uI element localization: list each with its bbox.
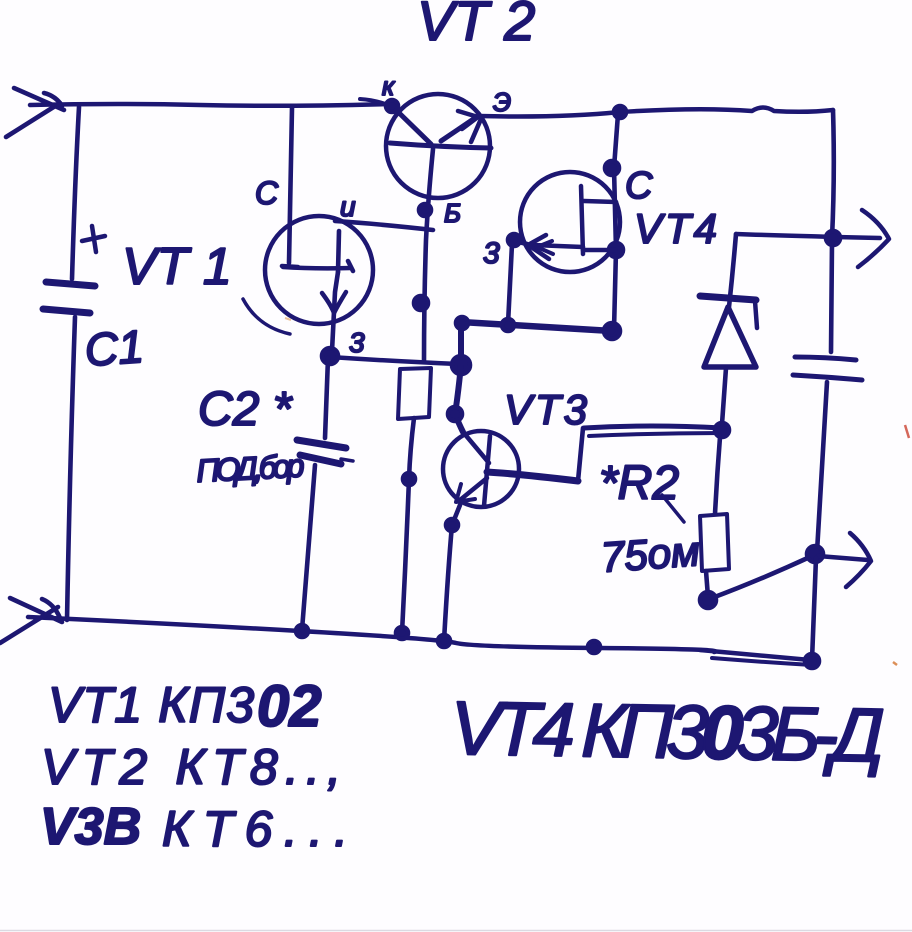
wire VT2 base down [424,149,433,362]
wire R2 to output diagonal [712,556,812,598]
wire middle horizontal y325 [461,322,612,331]
diode VD zener [700,234,757,424]
node output1 junction [826,231,840,245]
svg-text:3: 3 [483,237,500,270]
wire right rail down to bottom [812,558,816,660]
wire top rail left [30,104,390,106]
node VT4 gate [508,234,520,246]
node top rail junction [614,106,626,118]
svg-text:3: 3 [349,327,365,358]
svg-text:C1: C1 [83,320,145,376]
capacitor C2 [297,440,353,464]
svg-text:C: C [625,165,653,207]
arrow output 2 [818,556,868,560]
wire C1 top lead [72,107,79,279]
node bottom rail junctions [296,625,308,637]
input arrow bottom-left [0,598,62,643]
svg-text:VT 2: VT 2 [417,0,535,52]
wire right rail corner down [832,110,834,238]
svg-text:ПОД,бор: ПОД,бор [195,447,305,489]
wire VT1 to VT2 base [335,221,433,230]
node big junction [452,356,470,374]
wire bottom rail [28,617,715,652]
svg-text:VT 1: VT 1 [122,238,232,296]
node R2 bottom [700,592,716,608]
svg-text:Э: Э [493,87,511,117]
node VT1 source [322,348,338,364]
svg-text:VT4 КП303Б-Д: VT4 КП303Б-Д [450,686,885,779]
transistor VT1 [243,216,373,351]
node R2 top junction [715,423,729,437]
transistor VT2 [360,94,491,198]
wire R2 top lead [715,437,720,514]
wire C1 bottom lead [67,317,75,620]
svg-text:C2 *: C2 * [198,383,293,436]
svg-text:VT1 КП3: VT1 КП3 [48,677,254,733]
node VT2 base blob [419,204,431,216]
node output2 junction [807,546,823,562]
input arrow top-left [6,88,64,137]
wire R2 bottom lead [706,571,708,597]
transistor VT3 [443,431,578,507]
svg-text:к: к [382,71,396,101]
transistor VT4 [514,172,620,272]
wire top rail right [479,108,833,117]
wire VT4 gate down [508,244,512,324]
wire below C3 [817,382,827,552]
svg-text:VT2 КТ8..,: VT2 КТ8.., [41,739,341,795]
resistor R2 [700,514,729,571]
wire VT1 drain from top rail [289,108,292,263]
wire VT1 source horizontal [330,357,458,364]
wire output line 1 [736,234,880,238]
wire VT3 collector corner up [578,428,583,481]
wire VT4 drain rail [614,114,618,330]
svg-text:и: и [340,191,356,222]
capacitor C1 [43,226,105,313]
svg-text:Б: Б [444,198,461,228]
svg-text:C: C [255,175,279,211]
svg-text:КТ6...: КТ6... [162,801,348,857]
svg-text:75ом: 75ом [599,527,701,581]
wire right rail to cap [831,242,832,352]
resistor R1 [398,368,431,633]
svg-text:VT3: VT3 [504,386,590,433]
svg-text:VT4: VT4 [634,205,720,252]
arrow output 1 [858,210,889,267]
svg-text:V3В: V3В [40,798,141,856]
wire R2 net double horizontal [584,426,723,436]
wire C2 bottom lead [302,465,315,630]
capacitor C3 [793,357,862,380]
wire C2 top lead [325,358,328,438]
wire VT3 emitter down [444,505,460,641]
wire vertical x461 [455,322,463,432]
svg-text:02: 02 [257,674,322,739]
